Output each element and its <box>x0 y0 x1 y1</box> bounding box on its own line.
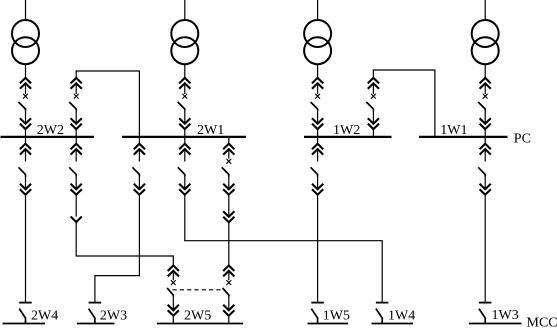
circuit breaker QB2 (1W2-1W1 tie) blade <box>366 102 373 111</box>
feeder circuit breaker F4 (2W1 to 1W4) blade <box>178 167 185 176</box>
drawout contact (upper) of feeder breaker F3 (2W1 to 2W3) <box>134 144 145 155</box>
svg-text:MCC: MCC <box>527 316 557 331</box>
wire F7 (1W1 to 1W3) <box>484 177 486 190</box>
wire T2 HV lead <box>184 0 186 20</box>
wire F6 (1W2 to 1W5) <box>317 177 319 190</box>
wire F4 drop to 1W4 switch <box>381 241 383 302</box>
wire F3 down to corner <box>138 195 140 276</box>
feeder circuit breaker F6 (1W2 to 1W5) blade <box>311 167 318 176</box>
wire QB2 (1W2-1W1 tie) below breaker <box>372 111 374 124</box>
wire QF3 (T3 incomer) below breaker <box>317 111 319 124</box>
MCC bus segment under 2W3 <box>77 323 115 325</box>
wire 2W5 right <box>228 271 230 280</box>
wire QB2 (1W2-1W1 tie) between contact and breaker <box>372 83 374 94</box>
knife switch 2W3 blade <box>89 309 95 324</box>
wire tie 1W2-1W1 horizontal link <box>373 69 436 71</box>
wire QF4 (T4 incomer) upper stem <box>484 64 486 78</box>
wire QB1 (2W2-2W1 tie) stem to bus <box>75 129 77 136</box>
knife switch 2W4 blade <box>19 309 25 324</box>
svg-text:1W3: 1W3 <box>492 308 519 323</box>
wire F3 drop to 2W3 switch <box>94 276 96 302</box>
transformer T3 <box>304 20 331 64</box>
knife switch 1W3 blade <box>479 309 485 324</box>
wire QF3 (T3 incomer) stem to bus <box>317 129 319 136</box>
drawout contact (lower) of starter 2W5 right <box>223 305 234 316</box>
circuit breaker QF2 (T2 incomer) blade <box>178 102 185 111</box>
wire QB1 (2W2-2W1 tie) between contact and breaker <box>75 83 77 94</box>
drawout contact (lower) of feeder breaker F1 (2W2 to 2W4) <box>20 184 31 195</box>
wire F2 horizontal run to 2W5 left branch <box>76 255 174 257</box>
bus 2W1 <box>122 136 246 138</box>
MCC bus segment under 1W4 <box>372 323 414 325</box>
drawout contact (upper) of breaker QF1 (T1 incomer) <box>20 78 31 89</box>
drawout contact (upper) of breaker QB1 (2W2-2W1 tie) <box>71 78 82 89</box>
svg-text:1W1: 1W1 <box>440 123 467 138</box>
wire QF1 (T1 incomer) stem to bus <box>25 129 27 136</box>
wire F5 <box>228 195 230 217</box>
wire QB2 (1W2-1W1 tie) stem to bus <box>372 129 374 136</box>
bus 2W2 <box>1 136 95 138</box>
feeder circuit breaker F5 (2W1 to 2W5) blade <box>222 167 229 176</box>
wire QF2 (T2 incomer) below breaker <box>184 111 186 124</box>
bus 1W2 <box>304 136 392 138</box>
wire F1 drop to 2W4 switch <box>25 195 27 302</box>
svg-text:PC: PC <box>514 132 531 147</box>
transformer T4 <box>472 20 499 64</box>
drawout contact (upper) of feeder breaker F2 (2W2 to 2W5) <box>71 144 82 155</box>
knife switch 1W4 blade <box>376 309 382 324</box>
wire F4 (2W1 to 1W4) <box>184 177 186 190</box>
wire T1 HV lead <box>25 0 27 20</box>
drawout contact (single) on F2 <box>71 217 82 223</box>
wire QF4 (T4 incomer) stem to bus <box>484 129 486 136</box>
wire T3 HV lead <box>317 0 319 20</box>
drawout contact (upper) of feeder breaker F1 (2W2 to 2W4) <box>20 144 31 155</box>
knife switch 1W5 blade <box>311 309 317 324</box>
breaker QF1 (T1 incomer) open-position mark (x) <box>23 94 28 99</box>
drawout contact (upper) of breaker QB2 (1W2-1W1 tie) <box>368 78 379 89</box>
wire F7 (1W1 to 1W3) <box>484 149 486 161</box>
wire F2 (2W2 to 2W5) <box>75 177 77 190</box>
feeder circuit breaker F7 (1W1 to 1W3) blade <box>478 167 485 176</box>
wire F3 (2W1 to 2W3) stem from bus <box>138 137 140 144</box>
wire F7 (1W1 to 1W3) stem from bus <box>484 137 486 144</box>
wire F4 (2W1 to 1W4) <box>184 149 186 161</box>
MCC bus segment under 1W5 <box>308 323 349 325</box>
wire F2 (2W2 to 2W5) <box>75 149 77 161</box>
wire F2 <box>75 195 77 217</box>
wire F7 drop to 1W3 switch <box>484 195 486 302</box>
drawout contact (lower) of starter 2W5 left <box>168 305 179 316</box>
wire 2W5 left <box>172 271 174 280</box>
mechanical link (dashed) between 2W5 starters <box>173 289 224 291</box>
wire tie drop to bus 1W1 <box>434 70 436 136</box>
breaker QF2 (T2 incomer) open-position mark (x) <box>182 94 187 99</box>
wire F5 (2W1 to 2W5) stem from bus <box>228 137 230 144</box>
wire F3 (2W1 to 2W3) <box>138 177 140 190</box>
drawout contact (upper) of feeder breaker F7 (1W1 to 1W3) <box>480 144 491 155</box>
wire 2W5 right stem to MCC bus <box>228 316 230 323</box>
drawout contact (lower) of breaker QB2 (1W2-1W1 tie) <box>368 118 379 129</box>
starter switch 2W5 right blade <box>223 288 229 297</box>
wire F5 (2W1 to 2W5) <box>228 177 230 190</box>
wire F4 down to corner <box>184 195 186 241</box>
drawout contact (lower) of feeder breaker F5 (2W1 to 2W5) <box>223 184 234 195</box>
starter 2W5 left open-position mark (x) <box>171 280 176 285</box>
wire QF2 (T2 incomer) between contact and breaker <box>184 83 186 94</box>
circuit breaker QF1 (T1 incomer) blade <box>19 102 26 111</box>
wire F6 drop to 1W5 switch <box>317 195 319 302</box>
fixed contact bar of switch 2W3 <box>89 302 102 304</box>
wire QB1 (2W2-2W1 tie) upper stem <box>75 71 77 78</box>
fixed contact bar of switch 2W4 <box>19 302 32 304</box>
wire F1 (2W2 to 2W4) <box>25 149 27 161</box>
svg-text:1W4: 1W4 <box>388 309 415 324</box>
bus 1W1 <box>419 136 508 138</box>
svg-text:2W1: 2W1 <box>197 123 224 138</box>
drawout contact (lower) of breaker QF2 (T2 incomer) <box>179 118 190 129</box>
drawout contact (upper) of feeder breaker F6 (1W2 to 1W5) <box>312 144 323 155</box>
wire QF1 (T1 incomer) upper stem <box>25 64 27 78</box>
drawout contact (upper) of breaker QF3 (T3 incomer) <box>312 78 323 89</box>
wire QF3 (T3 incomer) upper stem <box>317 64 319 78</box>
drawout contact (upper) of breaker QF4 (T4 incomer) <box>480 78 491 89</box>
drawout contact (lower) of feeder breaker F6 (1W2 to 1W5) <box>312 184 323 195</box>
drawout contact (lower) of breaker QF4 (T4 incomer) <box>480 118 491 129</box>
wire tie drop to bus 2W1 <box>138 71 140 136</box>
circuit breaker QB1 (2W2-2W1 tie) blade <box>69 102 76 111</box>
breaker QB1 (2W2-2W1 tie) open-position mark (x) <box>74 94 79 99</box>
svg-text:2W3: 2W3 <box>100 308 127 323</box>
transformer T2 <box>171 20 198 64</box>
wire F1 (2W2 to 2W4) stem from bus <box>25 137 27 144</box>
svg-text:2W5: 2W5 <box>184 308 211 323</box>
wire QF4 (T4 incomer) between contact and breaker <box>484 83 486 94</box>
wire F5 (2W1 to 2W5) <box>228 149 230 159</box>
wire F3 (2W1 to 2W3) <box>138 149 140 161</box>
wire QF4 (T4 incomer) below breaker <box>484 111 486 124</box>
transformer T1 <box>12 20 39 64</box>
wire F4 (2W1 to 1W4) stem from bus <box>184 137 186 144</box>
fixed contact bar of switch 1W3 <box>479 302 492 304</box>
drawout contact (upper) of starter 2W5 right <box>223 266 234 277</box>
feeder circuit breaker F2 (2W2 to 2W5) blade <box>69 167 76 176</box>
feeder circuit breaker F3 (2W1 to 2W3) blade <box>132 167 139 176</box>
drawout contact (lower) of feeder breaker F4 (2W1 to 1W4) <box>179 184 190 195</box>
wire F6 (1W2 to 1W5) stem from bus <box>317 137 319 144</box>
svg-text:2W4: 2W4 <box>31 308 58 323</box>
drawout contact (lower) of feeder breaker F7 (1W1 to 1W3) <box>480 184 491 195</box>
drawout contact (upper) of breaker QF2 (T2 incomer) <box>179 78 190 89</box>
drawout contact (upper) of feeder breaker F5 (2W1 to 2W5) <box>223 144 234 155</box>
wire F2 drop into 2W5 left branch <box>172 256 174 266</box>
feeder circuit breaker F1 (2W2 to 2W4) blade <box>19 167 26 176</box>
wire 2W5 left stem to MCC bus <box>172 316 174 323</box>
drawout contact (lower) of breaker QF1 (T1 incomer) <box>20 118 31 129</box>
wire 2W5 right <box>228 297 230 311</box>
fixed contact bar of switch 1W4 <box>376 302 389 304</box>
svg-text:1W5: 1W5 <box>323 309 350 324</box>
wire QF2 (T2 incomer) stem to bus <box>184 129 186 136</box>
svg-text:1W2: 1W2 <box>333 123 360 138</box>
drawout contact (upper) of starter 2W5 left <box>168 266 179 277</box>
svg-text:2W2: 2W2 <box>37 123 64 138</box>
wire F3 horizontal run to 2W3 <box>94 275 140 277</box>
breaker QF4 (T4 incomer) open-position mark (x) <box>483 94 488 99</box>
wire QB2 (1W2-1W1 tie) upper stem <box>372 70 374 78</box>
wire T4 HV lead <box>484 0 486 20</box>
fixed contact bar of switch 1W5 <box>311 302 324 304</box>
drawout contact (lower) of feeder breaker F3 (2W1 to 2W3) <box>134 184 145 195</box>
wire QF2 (T2 incomer) upper stem <box>184 64 186 78</box>
circuit breaker QF4 (T4 incomer) blade <box>478 102 485 111</box>
drawout contact (lower) of breaker QB1 (2W2-2W1 tie) <box>71 118 82 129</box>
wire QF1 (T1 incomer) between contact and breaker <box>25 83 27 94</box>
starter 2W5 right open-position mark (x) <box>226 280 231 285</box>
MCC bus segment under 1W3 <box>469 323 522 325</box>
breaker QB2 (1W2-1W1 tie) open-position mark (x) <box>371 94 376 99</box>
wire QF3 (T3 incomer) between contact and breaker <box>317 83 319 94</box>
wire 2W5 left <box>172 297 174 311</box>
wire QB1 (2W2-2W1 tie) below breaker <box>75 111 77 124</box>
MCC bus segment under 2W4 <box>3 323 46 325</box>
drawout contact (extra pair) on F5 <box>223 211 234 222</box>
wire F4 horizontal run to 1W4 <box>184 240 383 242</box>
drawout contact (lower) of feeder breaker F2 (2W2 to 2W5) <box>71 184 82 195</box>
wire F2 down to corner <box>75 222 77 256</box>
MCC bus segment under 2W5 <box>157 323 243 325</box>
wire F1 (2W2 to 2W4) <box>25 177 27 190</box>
wire QF1 (T1 incomer) below breaker <box>25 111 27 124</box>
wire F6 (1W2 to 1W5) <box>317 149 319 161</box>
wire tie 2W2-2W1 horizontal link <box>76 70 140 72</box>
feeder breaker F5 (2W1 to 2W5) open-position mark (x) <box>226 159 231 164</box>
starter switch 2W5 left blade <box>167 288 173 297</box>
breaker QF3 (T3 incomer) open-position mark (x) <box>315 94 320 99</box>
wire F2 (2W2 to 2W5) stem from bus <box>75 137 77 144</box>
drawout contact (lower) of breaker QF3 (T3 incomer) <box>312 118 323 129</box>
wire F5 down to 2W5 right branch <box>228 222 230 265</box>
drawout contact (upper) of feeder breaker F4 (2W1 to 1W4) <box>179 144 190 155</box>
circuit breaker QF3 (T3 incomer) blade <box>311 102 318 111</box>
